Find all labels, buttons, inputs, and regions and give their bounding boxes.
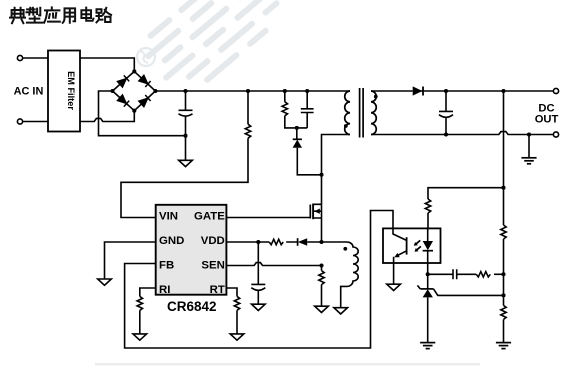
- svg-text:VDD: VDD: [201, 235, 225, 247]
- svg-text:AC IN: AC IN: [14, 86, 44, 98]
- svg-text:GATE: GATE: [194, 210, 225, 222]
- svg-text:EM Filter: EM Filter: [66, 71, 76, 110]
- svg-text:RI: RI: [159, 284, 170, 296]
- svg-text:CR6842: CR6842: [167, 299, 217, 314]
- svg-text:VIN: VIN: [159, 210, 178, 222]
- svg-text:GND: GND: [159, 235, 184, 247]
- svg-text:SEN: SEN: [201, 259, 224, 271]
- svg-text:FB: FB: [159, 259, 174, 271]
- svg-text:OUT: OUT: [535, 114, 559, 126]
- svg-text:RT: RT: [210, 284, 225, 296]
